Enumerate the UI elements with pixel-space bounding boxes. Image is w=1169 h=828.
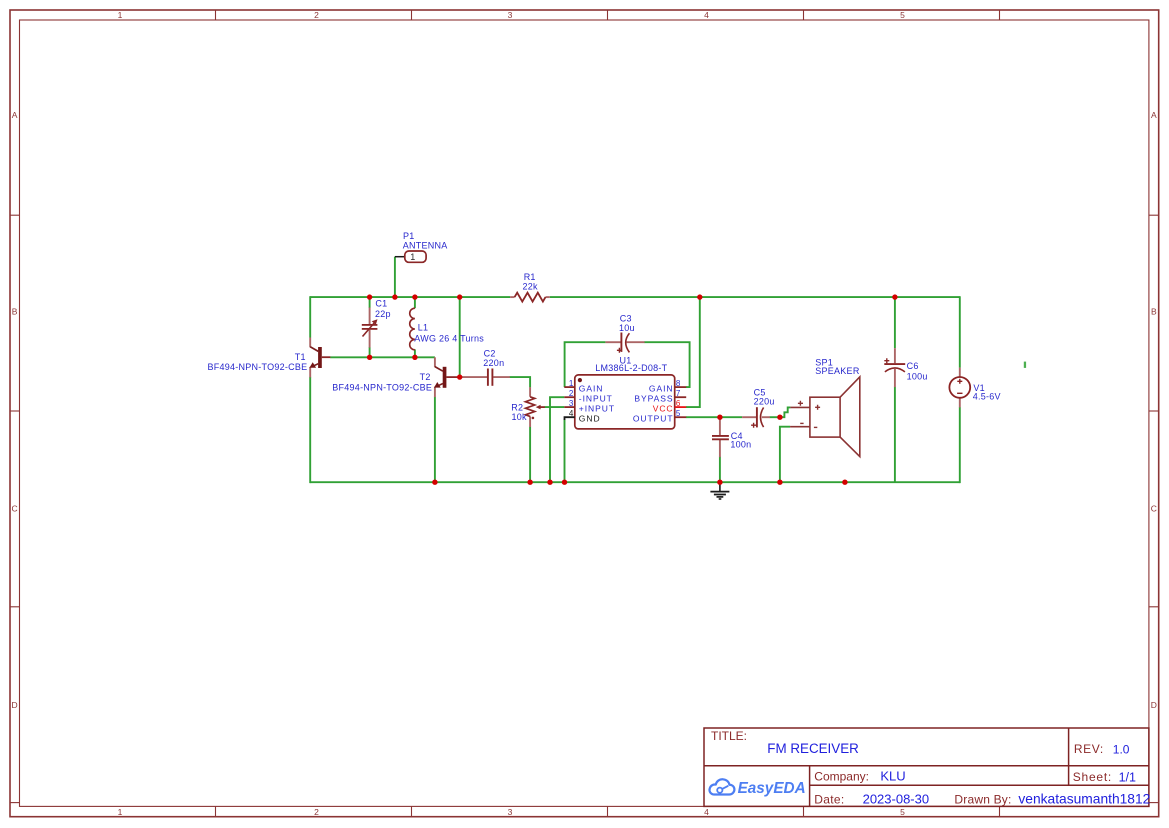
svg-text:KLU: KLU (880, 768, 905, 783)
svg-text:Date:: Date: (814, 792, 844, 806)
svg-text:venkatasumanth1812: venkatasumanth1812 (1018, 791, 1150, 806)
wire U1 pin4 to bus (564, 420, 566, 483)
svg-text:Sheet:: Sheet: (1073, 770, 1112, 784)
node mid bus (842, 480, 847, 485)
wire right vertical branch (V1) (959, 296, 961, 483)
svg-text:2: 2 (569, 389, 574, 398)
U1 pin 8 (675, 386, 687, 388)
svg-text:10k: 10k (512, 412, 528, 422)
svg-text:2: 2 (314, 10, 319, 20)
node speaker bus (777, 480, 782, 485)
resistor R1 (510, 272, 550, 302)
svg-text:TITLE:: TITLE: (711, 729, 747, 743)
svg-text:REV:: REV: (1074, 742, 1104, 756)
node C1 top (367, 294, 372, 299)
node pin2 bus (547, 480, 552, 485)
svg-text:C1: C1 (375, 299, 387, 309)
svg-text:3: 3 (508, 10, 513, 20)
svg-text:1.0: 1.0 (1113, 742, 1130, 756)
svg-text:C6: C6 (907, 361, 919, 371)
svg-text:+INPUT: +INPUT (579, 404, 615, 414)
svg-text:1/1: 1/1 (1119, 770, 1136, 784)
wire C4 bottom to bus (719, 457, 721, 483)
wire U1 pin1 to C3 left (565, 342, 606, 387)
wire C2 output to R2 top (510, 377, 531, 387)
svg-text:22p: 22p (375, 309, 391, 319)
transistor T2 (332, 357, 459, 397)
node T2 drop top (457, 294, 462, 299)
EasyEDA logo (710, 779, 806, 797)
svg-text:-INPUT: -INPUT (579, 394, 613, 404)
svg-text:C: C (12, 503, 18, 513)
wire left vertical branch (309, 296, 311, 483)
capacitor C2 (460, 349, 510, 386)
svg-text:3: 3 (569, 399, 574, 408)
wire C1 branch (369, 297, 371, 357)
node T2 emitter bus (432, 480, 437, 485)
svg-text:5: 5 (900, 10, 905, 20)
wire R2 bottom to bus (529, 427, 531, 483)
svg-text:C: C (1151, 503, 1157, 513)
svg-text:GND: GND (579, 414, 601, 424)
polarized capacitor C6 (884, 348, 927, 387)
variable capacitor C1 (362, 299, 391, 348)
title block (704, 728, 1149, 806)
svg-text:2023-08-30: 2023-08-30 (863, 791, 930, 806)
svg-text:8: 8 (676, 379, 681, 388)
junction dots (367, 294, 898, 485)
svg-text:SPEAKER: SPEAKER (815, 366, 860, 376)
wire U1 pin2 to bus (550, 397, 564, 482)
U1 pin 5 (675, 416, 687, 418)
U1 pin 1 (564, 386, 575, 388)
svg-text:5: 5 (676, 409, 681, 418)
svg-text:220n: 220n (483, 358, 504, 368)
svg-text:VCC: VCC (653, 404, 674, 414)
wire T2 emitter to bus (434, 397, 436, 483)
svg-text:10u: 10u (619, 323, 635, 333)
svg-text:7: 7 (676, 389, 681, 398)
svg-text:AWG 26 4 Turns: AWG 26 4 Turns (414, 334, 484, 344)
node output C4 (717, 415, 722, 420)
wire base rail (T1 base to T2 collector corner) (330, 356, 435, 358)
polarized capacitor C3 (605, 314, 644, 353)
node C1 bottom (367, 355, 372, 360)
node ground bus (717, 480, 722, 485)
svg-text:Company:: Company: (814, 770, 869, 784)
wire L1 branch (414, 297, 416, 357)
U1 pin 4 (GND) (565, 417, 575, 420)
svg-text:BF494-NPN-TO92-CBE: BF494-NPN-TO92-CBE (332, 382, 432, 392)
node T2 base (457, 374, 462, 379)
svg-text:1: 1 (410, 252, 415, 262)
svg-text:T2: T2 (420, 372, 431, 382)
node L1 bottom (412, 355, 417, 360)
svg-text:220u: 220u (754, 397, 775, 407)
wire antenna drop (394, 257, 396, 297)
node C6 top (892, 294, 897, 299)
svg-text:R2: R2 (511, 402, 523, 412)
svg-text:T1: T1 (295, 352, 306, 362)
wire bottom ground bus (310, 481, 960, 483)
svg-text:A: A (12, 110, 18, 120)
node C5 speaker (777, 415, 782, 420)
svg-text:2: 2 (314, 807, 319, 817)
svg-text:B: B (12, 307, 18, 317)
svg-text:100u: 100u (907, 372, 928, 382)
svg-text:3: 3 (508, 807, 513, 817)
svg-text:D: D (1151, 700, 1157, 710)
svg-text:4: 4 (704, 10, 709, 20)
wire R2 wiper to U1 pin3 (545, 406, 565, 408)
wire C5 right to node (770, 416, 780, 418)
svg-text:L1: L1 (418, 323, 429, 333)
svg-text:5: 5 (900, 807, 905, 817)
svg-text:4: 4 (704, 807, 709, 817)
svg-text:A: A (1151, 110, 1157, 120)
svg-text:4.5-6V: 4.5-6V (973, 392, 1001, 402)
wire speaker minus to bus (780, 427, 790, 483)
wire top power rail (310, 296, 960, 298)
wire T2 collector drop from top rail (459, 297, 461, 377)
wire C3 right to U1 pin8 (644, 342, 689, 387)
svg-text:22k: 22k (523, 281, 539, 291)
node pin4 bus (562, 480, 567, 485)
svg-text:ANTENNA: ANTENNA (403, 241, 448, 251)
svg-text:6: 6 (676, 399, 681, 408)
node antenna (392, 294, 397, 299)
svg-text:1: 1 (569, 379, 574, 388)
node R2 bus (527, 480, 532, 485)
svg-text:BF494-NPN-TO92-CBE: BF494-NPN-TO92-CBE (208, 362, 308, 372)
node VCC rail (697, 294, 702, 299)
svg-text:D: D (12, 700, 18, 710)
node L1 top (412, 294, 417, 299)
svg-text:EasyEDA: EasyEDA (738, 780, 806, 797)
svg-text:B: B (1151, 307, 1157, 317)
U1 pin 2 (564, 396, 575, 398)
svg-text:GAIN: GAIN (649, 383, 674, 393)
U1 pin 7 (675, 396, 687, 398)
svg-text:BYPASS: BYPASS (634, 394, 673, 404)
svg-text:1: 1 (118, 807, 123, 817)
svg-text:GAIN: GAIN (579, 383, 604, 393)
svg-text:4: 4 (569, 409, 574, 418)
svg-text:OUTPUT: OUTPUT (633, 414, 674, 424)
connector P1 ANTENNA (395, 231, 448, 262)
svg-text:P1: P1 (403, 231, 415, 241)
op-amp IC U1 LM386 (564, 355, 686, 429)
potentiometer R2 (511, 387, 545, 427)
svg-text:1: 1 (118, 10, 123, 20)
wire staircase to speaker plus (780, 407, 791, 417)
wire U1 pin6 VCC to top rail (686, 296, 700, 407)
svg-text:Drawn By:: Drawn By: (954, 792, 1011, 806)
transistor T1 (208, 338, 331, 378)
polarized capacitor C5 (742, 387, 775, 427)
U1 pin 6 (VCC) (675, 406, 687, 408)
ground symbol (710, 482, 729, 499)
inductor L1 (410, 308, 485, 350)
svg-text:LM386L-2-D08-T: LM386L-2-D08-T (595, 363, 667, 373)
svg-text:FM RECEIVER: FM RECEIVER (767, 741, 859, 756)
speaker SP1 (790, 357, 860, 456)
wire C6 branch (894, 297, 896, 482)
wire stray stub right of C6 (1024, 362, 1026, 368)
wire U1 pin5 output to C4/C5 node (686, 416, 742, 418)
svg-text:100n: 100n (730, 439, 751, 449)
capacitor C4 (712, 417, 751, 457)
U1 pin 3 (564, 406, 575, 408)
voltage source V1 (949, 368, 1000, 408)
